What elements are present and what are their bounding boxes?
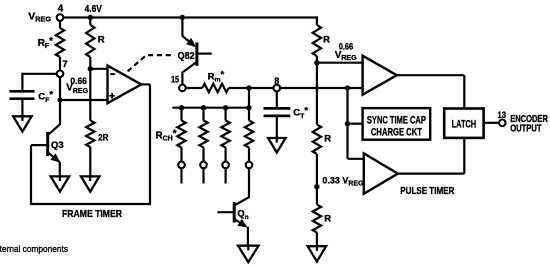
svg-text:7: 7 (62, 59, 67, 70)
svg-text:4: 4 (58, 3, 64, 14)
svg-text:OUTPUT: OUTPUT (510, 123, 542, 135)
svg-text:R: R (323, 34, 330, 45)
svg-text:SYNC TIME CAP: SYNC TIME CAP (367, 115, 426, 127)
svg-text:R: R (98, 34, 105, 45)
svg-text:4.6V: 4.6V (85, 4, 103, 15)
svg-text:FRAME TIMER: FRAME TIMER (62, 209, 123, 220)
svg-text:2R: 2R (98, 132, 108, 143)
svg-text:ternal components: ternal components (0, 244, 68, 255)
svg-text:15: 15 (171, 74, 179, 84)
svg-text:8: 8 (274, 76, 279, 86)
svg-text:Q3: Q3 (51, 140, 64, 151)
svg-text:0.66: 0.66 (70, 76, 87, 86)
svg-text:R: R (324, 133, 331, 144)
svg-text:PULSE TIMER: PULSE TIMER (400, 185, 454, 197)
svg-text:R: R (324, 213, 331, 224)
svg-text:13: 13 (498, 110, 507, 120)
svg-text:Q82: Q82 (178, 51, 195, 62)
svg-text:CHARGE CKT: CHARGE CKT (371, 126, 422, 138)
svg-text:LATCH: LATCH (452, 118, 477, 130)
